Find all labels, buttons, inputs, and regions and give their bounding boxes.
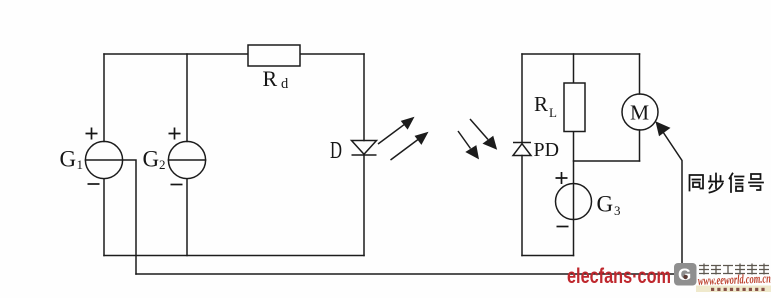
svg-text:L: L	[549, 105, 557, 120]
svg-text:R: R	[263, 66, 278, 91]
svg-text:D: D	[330, 138, 342, 164]
svg-text:www.eeworld.com.cn: www.eeworld.com.cn	[698, 270, 771, 288]
svg-text:1: 1	[77, 157, 84, 172]
svg-text:M: M	[630, 101, 649, 125]
svg-text:2: 2	[159, 157, 166, 172]
svg-text:G: G	[143, 147, 160, 172]
svg-text:PD: PD	[534, 139, 560, 161]
svg-text:3: 3	[614, 203, 621, 218]
svg-text:G: G	[678, 265, 691, 284]
svg-text:elecfans·com: elecfans·com	[567, 265, 671, 288]
svg-text:G: G	[597, 192, 614, 217]
svg-text:R: R	[534, 92, 548, 116]
svg-text:d: d	[281, 76, 289, 92]
svg-text:G: G	[60, 147, 77, 172]
